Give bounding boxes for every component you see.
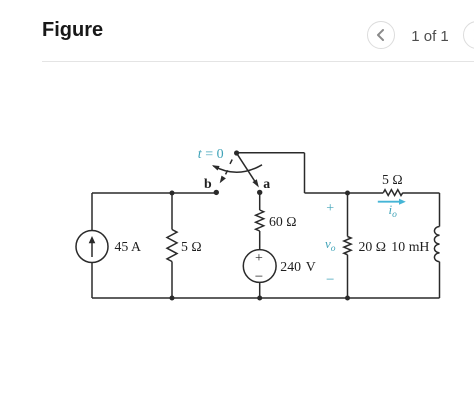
node b terminal	[214, 190, 219, 195]
resistor 5 ohm (top right horizontal zigzag)	[383, 190, 403, 196]
svg-text:240: 240	[280, 259, 301, 274]
wire to 5-ohm right resistor	[305, 192, 384, 194]
switch dashed-throw arrowhead at b	[220, 176, 226, 184]
current arrow i_o	[378, 199, 406, 205]
wire left vertical (top half above 45A source)	[91, 193, 93, 231]
wire top-left: node b to left corner	[92, 192, 215, 194]
node: top of 20-ohm resistor	[345, 191, 350, 196]
svg-text:−: −	[255, 269, 263, 285]
svg-text:+: +	[326, 201, 334, 216]
wire node a down to 60-ohm resistor	[259, 193, 261, 210]
switch motion arc	[213, 165, 262, 172]
wire from switch pivot to top-right corner	[237, 152, 305, 154]
wire from 5-ohm resistor to right corner	[403, 192, 440, 194]
svg-text:45 A: 45 A	[115, 239, 141, 254]
wire 240V source to bottom rail	[259, 282, 261, 298]
current source 45 A (arrow shaft)	[91, 242, 93, 257]
wire 60-ohm to 240V source	[259, 231, 261, 250]
switch blade arrowhead at a	[252, 179, 259, 187]
svg-text:20 Ω: 20 Ω	[359, 239, 387, 254]
svg-text:−: −	[326, 272, 334, 288]
svg-text:5 Ω: 5 Ω	[181, 239, 202, 254]
resistor 5 ohm (left vertical zigzag)	[167, 230, 177, 262]
switch blade (pivot to a)	[237, 153, 255, 181]
wire 5-ohm left branch top	[171, 193, 173, 230]
svg-text:5 Ω: 5 Ω	[382, 172, 403, 187]
svg-text:+: +	[255, 251, 263, 266]
node: bottom of 20-ohm resistor	[345, 296, 350, 301]
resistor 60 ohm (vertical zigzag)	[256, 210, 264, 231]
node: switch pivot	[234, 150, 239, 155]
voltage source 240 V (circle)	[243, 250, 276, 283]
wire down from top-right corner	[304, 153, 306, 193]
inductor 10 mH (coils)	[434, 227, 439, 262]
wire right vertical above inductor	[439, 193, 441, 227]
wire bottom rail	[92, 297, 440, 299]
wire 20-ohm branch bottom	[347, 255, 349, 298]
node: top of left 5-ohm resistor	[170, 191, 175, 196]
switch arc arrowhead	[212, 165, 220, 170]
resistor 20 ohm (vertical zigzag)	[344, 237, 351, 255]
svg-text:V: V	[306, 259, 316, 274]
wire 5-ohm left branch bottom	[171, 262, 173, 299]
svg-text:vo: vo	[325, 236, 336, 254]
svg-text:t = 0: t = 0	[198, 147, 224, 162]
svg-text:io: io	[389, 202, 398, 220]
node a terminal	[257, 190, 262, 195]
svg-text:a: a	[263, 176, 270, 191]
wire 20-ohm branch top	[347, 193, 349, 237]
node: bottom of 240V branch	[257, 296, 262, 301]
wire left vertical (below 45A source)	[91, 263, 93, 299]
current source 45 A (circle)	[76, 231, 108, 263]
svg-text:10: 10	[391, 239, 405, 254]
wire right vertical below inductor	[439, 262, 441, 298]
switch dashed throw toward b	[226, 160, 233, 175]
svg-text:b: b	[204, 176, 212, 191]
svg-text:60 Ω: 60 Ω	[269, 214, 297, 229]
svg-text:mH: mH	[409, 239, 430, 254]
current source 45 A (arrowhead)	[89, 236, 96, 243]
node: bottom of left 5-ohm resistor	[170, 296, 175, 301]
